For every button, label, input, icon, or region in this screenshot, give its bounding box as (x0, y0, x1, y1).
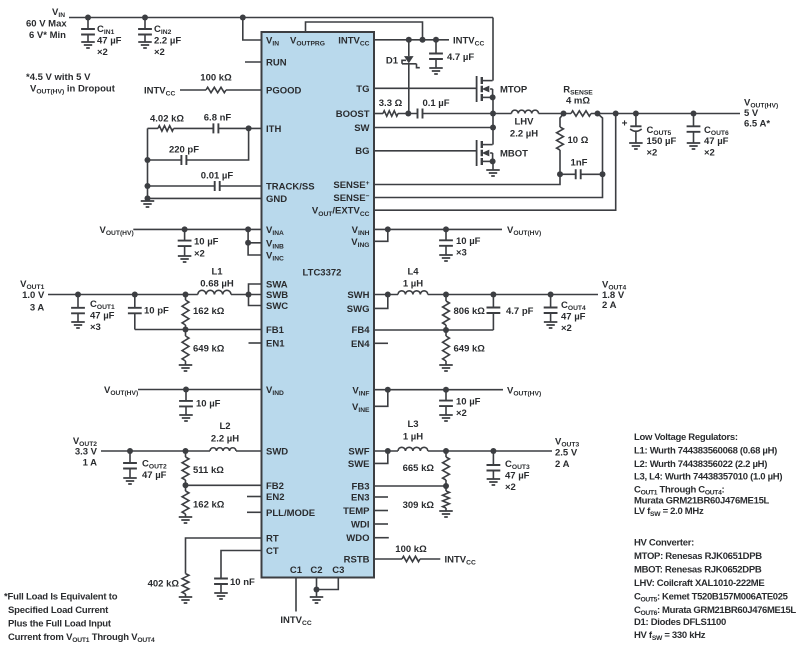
ground below 649k (179, 365, 193, 371)
svg-text:1 A: 1 A (83, 458, 98, 469)
capacitor 4.7pF FB4 (487, 295, 534, 331)
svg-text:665 kΩ: 665 kΩ (403, 463, 435, 474)
wire VINF line (374, 387, 503, 393)
wire MTOP source to SW node (492, 97, 494, 113)
svg-text:BOOST: BOOST (336, 109, 370, 120)
svg-text:MTOP: MTOP (500, 85, 528, 96)
ground below COUT2 (123, 478, 137, 484)
wire VIN rail to MTOP drain (492, 18, 494, 81)
wire VOUTPRG loop (306, 22, 423, 40)
svg-text:GND: GND (266, 194, 287, 205)
label D1 (386, 56, 399, 67)
svg-text:47 µF: 47 µF (505, 471, 530, 482)
svg-text:COUT6: Murata GRM21BR60J476ME1: COUT6: Murata GRM21BR60J476ME15L (634, 605, 796, 617)
svg-text:L2: Wurth 74438356022 (2.2 µH): L2: Wurth 74438356022 (2.2 µH) (634, 459, 767, 470)
svg-text:MTOP: Renesas RJK0651DPB: MTOP: Renesas RJK0651DPB (634, 551, 762, 562)
capacitor 10pF FB1 (128, 295, 169, 330)
label COUT5 (647, 125, 677, 159)
svg-text:47 µF: 47 µF (142, 470, 167, 481)
wire PGOOD right segment (226, 89, 262, 91)
wire BG to MBOT gate (374, 150, 477, 152)
svg-text:L2: L2 (219, 421, 230, 432)
svg-text:0.68 µH: 0.68 µH (200, 279, 234, 290)
svg-text:×2: ×2 (154, 47, 165, 58)
resistor 649k FB1 bottom (182, 330, 225, 366)
wire WDO stub (374, 537, 389, 539)
resistor 309k FB3 bottom (403, 486, 450, 511)
ground below 309k (439, 511, 453, 517)
svg-text:0.01 µF: 0.01 µF (201, 171, 234, 182)
inductor L3 1uH (398, 447, 428, 451)
wire SWF to L3 (374, 448, 398, 454)
diode D1 DFLS1100 (402, 40, 420, 114)
svg-text:SENSE−: SENSE− (333, 193, 369, 204)
wire EN1 stub (249, 342, 262, 344)
resistor RSENSE 4mohm (571, 111, 591, 116)
svg-text:SWB: SWB (266, 290, 288, 301)
resistor 402k RT (148, 574, 189, 597)
svg-text:806 kΩ: 806 kΩ (454, 306, 486, 317)
svg-text:162 kΩ: 162 kΩ (193, 306, 225, 317)
wire TRACK/SS to pin (220, 185, 262, 187)
svg-text:SWE: SWE (348, 459, 370, 470)
ground below 649k FB4 (439, 365, 453, 371)
inductor L1 0.68uH (198, 290, 231, 294)
svg-text:ITH: ITH (266, 124, 281, 135)
svg-text:×2: ×2 (505, 482, 516, 493)
wire L1 to SWB (231, 292, 262, 298)
resistor 665k FB3 top (403, 451, 450, 486)
svg-text:×2: ×2 (704, 148, 715, 159)
svg-text:L1: Wurth 744383560068 (0.68 µ: L1: Wurth 744383560068 (0.68 µH) (634, 446, 777, 457)
svg-text:Specified Load Current: Specified Load Current (8, 605, 109, 616)
svg-text:4.7 pF: 4.7 pF (506, 306, 534, 317)
svg-text:10 nF: 10 nF (230, 577, 255, 588)
node VOUT(HV) output labels (744, 98, 778, 130)
capacitor 0.1uF BOOST (418, 98, 450, 119)
label COUT1 (90, 299, 115, 333)
capacitor CIN1 (81, 15, 95, 43)
node VOUT2 labels (73, 436, 98, 469)
label CIN1 value (97, 24, 122, 58)
ground below MBOT (486, 170, 500, 176)
svg-text:×3: ×3 (90, 322, 101, 333)
label 4.7uF (447, 52, 474, 63)
resistor 100k RSTB (395, 544, 427, 562)
label COUT3 (505, 459, 530, 493)
wire L4 to VOUT4 (428, 292, 598, 298)
resistor 162k FB1 top (182, 295, 225, 330)
svg-text:3.3 Ω: 3.3 Ω (379, 98, 403, 109)
wire LHV to RSENSE (539, 111, 572, 117)
svg-text:SWA: SWA (266, 280, 288, 291)
node VOUT(HV) label at VIND (104, 385, 138, 397)
wire EN2 stub (247, 496, 262, 498)
svg-text:SWG: SWG (347, 304, 370, 315)
svg-text:3.3 V: 3.3 V (75, 447, 98, 458)
wire SW pin to node (374, 125, 496, 131)
node VOUT(HV) label at VINF (507, 385, 541, 397)
label L1 (200, 267, 234, 290)
capacitor COUT4 47uF (544, 295, 558, 323)
svg-text:220 pF: 220 pF (169, 145, 199, 156)
ground below CIN1 (81, 42, 95, 48)
wire PGOOD left segment (180, 89, 206, 91)
svg-text:4.02 kΩ: 4.02 kΩ (150, 113, 184, 124)
svg-text:C2: C2 (310, 565, 322, 576)
svg-text:2.2 µH: 2.2 µH (211, 434, 239, 445)
capacitor 4.7uF INTVCC (429, 40, 443, 68)
svg-text:LTC3372: LTC3372 (303, 268, 342, 279)
resistor 10ohm sense filter (557, 114, 589, 175)
wire SW vertical to MBOT drain (492, 114, 494, 145)
label MTOP (500, 85, 528, 96)
svg-text:FB1: FB1 (266, 325, 285, 336)
svg-text:0.1 µF: 0.1 µF (422, 98, 449, 109)
svg-text:SENSE+: SENSE+ (333, 180, 369, 191)
svg-text:L4: L4 (407, 267, 419, 278)
IC top pin label VOUTPRG (290, 36, 325, 48)
label RSENSE (563, 85, 593, 107)
svg-text:×3: ×3 (456, 248, 467, 259)
svg-text:TRACK/SS: TRACK/SS (266, 182, 315, 193)
svg-text:4.7 µF: 4.7 µF (447, 52, 474, 63)
capacitor 10uF VIND (179, 390, 193, 416)
wire GND line (148, 197, 262, 199)
ground below COUT6 (687, 143, 701, 149)
label COUT4 (561, 300, 586, 334)
IC left pin labels (266, 36, 315, 558)
label L3 (403, 419, 423, 443)
wire TEMP stub (374, 510, 388, 512)
svg-text:309 kΩ: 309 kΩ (403, 500, 435, 511)
svg-text:FB2: FB2 (266, 481, 284, 492)
svg-text:649 kΩ: 649 kΩ (454, 344, 486, 355)
svg-text:Plus the Full Load Input: Plus the Full Load Input (8, 619, 112, 630)
label L4 (403, 267, 423, 290)
wire TRACK/SS left (148, 185, 215, 187)
svg-text:WDO: WDO (346, 533, 369, 544)
svg-text:EN3: EN3 (351, 493, 369, 504)
wire EN3 stub (374, 496, 388, 498)
svg-text:L3: L3 (407, 419, 418, 430)
resistor 4.02k ITH (150, 113, 184, 131)
svg-text:10 pF: 10 pF (144, 306, 169, 317)
svg-text:6 V* Min: 6 V* Min (29, 30, 66, 41)
wire sense filter right leg (598, 114, 603, 175)
ground below VINH cap (439, 255, 453, 261)
wire VINH line (374, 226, 502, 232)
wire VOUT/EXTVCC line (374, 114, 616, 211)
wire VIN rail to IC VIN pin (240, 15, 262, 41)
ground below CIN2 (138, 42, 152, 48)
node VIN input labels (26, 7, 67, 41)
svg-text:LHV: Coilcraft XAL1010-222ME: LHV: Coilcraft XAL1010-222ME (634, 578, 764, 589)
wire SWG bracket (374, 295, 388, 309)
ground below 4.7uF (429, 68, 443, 74)
svg-text:C1: C1 (290, 565, 303, 576)
svg-text:C3: C3 (332, 565, 344, 576)
capacitor COUT2 47uF (123, 451, 137, 478)
svg-text:1 µH: 1 µH (403, 432, 423, 443)
resistor 100k PGOOD (200, 73, 232, 93)
svg-text:L3, L4: Wurth 74438357010 (1.0: L3, L4: Wurth 74438357010 (1.0 µH) (634, 472, 782, 483)
ground below COUT4 (544, 322, 558, 328)
wire VOUT1 line (48, 292, 198, 298)
node INTVCC label at RSTB (445, 555, 476, 567)
capacitor 6.8nF ITH (204, 113, 232, 134)
capacitor 10uF VINA (178, 229, 192, 256)
wire WDI stub (374, 523, 388, 525)
wire FB1 line (135, 327, 262, 333)
svg-text:1nF: 1nF (571, 158, 588, 169)
wire VINB VINC bracket (245, 229, 261, 255)
svg-text:TG: TG (356, 84, 369, 95)
wire ITH vertical bus (145, 128, 151, 201)
IC bottom pin labels C1 C2 C3 (290, 565, 344, 576)
ground below 10nF (214, 593, 228, 599)
wire INTVCC from pin (374, 37, 449, 43)
svg-text:CT: CT (266, 546, 279, 557)
capacitor 10nF CT (214, 577, 255, 593)
note HV converter list (634, 538, 796, 643)
label CIN2 value (154, 24, 181, 58)
node INTVCC label bottom (280, 615, 311, 627)
wire VIND line (138, 387, 262, 393)
svg-text:Murata GRM21BR60J476ME15L: Murata GRM21BR60J476ME15L (634, 496, 770, 507)
svg-text:60 V Max: 60 V Max (26, 19, 67, 30)
svg-text:BG: BG (355, 146, 369, 157)
ground below VIND cap (179, 415, 193, 421)
wire BOOST from pin (374, 113, 383, 115)
wire L3 to VOUT3 (428, 448, 552, 454)
node VOUT(HV) label at VINH (507, 225, 541, 237)
wire SWH to L4 (374, 292, 398, 298)
wire 220pF branch right (186, 128, 248, 160)
svg-text:5 V: 5 V (744, 108, 759, 119)
wire RSENSE to output (591, 111, 740, 117)
svg-text:RUN: RUN (266, 58, 287, 69)
svg-text:SWC: SWC (266, 301, 288, 312)
capacitor 1nF sense filter (557, 158, 606, 180)
label 10uF x3 VINH (456, 236, 481, 259)
wire RSTB left (374, 558, 402, 560)
ground below 162k FB2 (179, 517, 193, 523)
svg-text:100 kΩ: 100 kΩ (200, 73, 232, 84)
svg-text:*Full Load Is Equivalent to: *Full Load Is Equivalent to (4, 592, 118, 603)
wire EN4 stub (374, 342, 388, 344)
svg-text:100 kΩ: 100 kΩ (395, 544, 427, 555)
label MBOT (500, 149, 528, 160)
label L2 (211, 421, 239, 445)
node VOUT3 labels (555, 437, 579, 471)
inductor L2 2.2uH (210, 448, 236, 451)
svg-text:SWD: SWD (266, 447, 288, 458)
svg-text:*4.5 V with 5 V: *4.5 V with 5 V (26, 72, 91, 83)
svg-text:LHV: LHV (515, 117, 535, 128)
svg-text:D1: Diodes DFLS1100: D1: Diodes DFLS1100 (634, 617, 726, 628)
svg-text:10 Ω: 10 Ω (568, 135, 589, 146)
svg-text:3 A: 3 A (30, 302, 45, 313)
svg-text:150 µF: 150 µF (647, 136, 677, 147)
ground below COUT5 (629, 143, 643, 149)
wire VOUT2 line (101, 448, 210, 454)
transistor MTOP (477, 76, 496, 102)
svg-text:TEMP: TEMP (343, 506, 370, 517)
svg-text:Low Voltage Regulators:: Low Voltage Regulators: (634, 432, 738, 443)
wire PLL/MODE stub (247, 511, 262, 513)
svg-text:RT: RT (266, 534, 279, 545)
svg-text:×2: ×2 (456, 408, 467, 419)
svg-text:FB4: FB4 (352, 325, 371, 336)
svg-text:1 µH: 1 µH (403, 279, 423, 290)
svg-text:RSTB: RSTB (344, 555, 370, 566)
capacitor CIN2 (138, 15, 152, 43)
wire RUN stub (245, 61, 262, 63)
node INTVCC label at PGOOD (144, 85, 175, 97)
wire CT line (221, 551, 262, 579)
capacitor 220pF (169, 145, 199, 166)
svg-text:SW: SW (354, 123, 369, 134)
wire SENSE+ line (374, 174, 560, 184)
svg-text:162 kΩ: 162 kΩ (193, 500, 225, 511)
resistor 3.3ohm BOOST (379, 98, 403, 116)
wire ITH to pin (218, 125, 261, 131)
capacitor 0.01uF TRACK/SS (201, 171, 234, 191)
svg-text:×2: ×2 (561, 323, 572, 334)
ground below VINA cap (178, 256, 192, 262)
ground below VINF cap (439, 415, 453, 421)
inductor L4 1uH (398, 291, 428, 295)
svg-text:HV Converter:: HV Converter: (634, 538, 694, 549)
label COUT6 (704, 125, 729, 159)
svg-text:MBOT: Renesas RJK0652DPB: MBOT: Renesas RJK0652DPB (634, 565, 762, 576)
resistor 649k FB4 bottom (443, 330, 486, 365)
wire VINE bracket (374, 390, 388, 407)
svg-text:649 kΩ: 649 kΩ (193, 344, 225, 355)
svg-text:MBOT: MBOT (500, 149, 528, 160)
svg-text:COUT5: Kemet T520B157M006ATE02: COUT5: Kemet T520B157M006ATE025 (634, 592, 789, 604)
capacitor COUT1 47uF (71, 295, 85, 323)
svg-text:EN1: EN1 (266, 339, 285, 350)
capacitor 10uF VINH (439, 229, 453, 255)
svg-text:511 kΩ: 511 kΩ (193, 465, 224, 476)
resistor 162k FB2 bottom (182, 485, 225, 517)
label 10uF x2 VINA (194, 237, 219, 260)
capacitor 10uF VINF (439, 390, 453, 415)
wire TG to MTOP gate (374, 87, 477, 89)
node INTVCC label top (453, 35, 484, 47)
label 10uF x2 VINF (456, 397, 481, 420)
wire RT line (186, 538, 262, 574)
IC right pin labels (312, 35, 370, 565)
capacitor COUT3 47uF (487, 451, 501, 479)
note dropout footnote (26, 72, 116, 96)
svg-text:402 kΩ: 402 kΩ (148, 579, 180, 590)
svg-text:×2: ×2 (97, 47, 108, 58)
svg-text:10 µF: 10 µF (194, 237, 219, 248)
ground below COUT3 (487, 479, 501, 485)
wire FB3 line (374, 483, 449, 489)
resistor 511k FB2 top (182, 451, 224, 485)
svg-text:1.0 V: 1.0 V (22, 290, 45, 301)
wire FB4 line (374, 327, 493, 333)
svg-text:EN4: EN4 (351, 339, 370, 350)
svg-text:6.5 A*: 6.5 A* (744, 119, 770, 130)
wire VIN rail (69, 17, 493, 19)
op-amp U1 LTC3372 IC body (262, 32, 375, 578)
svg-text:L1: L1 (211, 267, 223, 278)
wire SWA SWC bracket (249, 284, 262, 306)
svg-text:47 µF: 47 µF (97, 36, 122, 47)
node VOUT4 labels (602, 280, 626, 312)
ground at GND pin bus (141, 198, 155, 207)
svg-text:EN2: EN2 (266, 492, 284, 503)
transistor MBOT (477, 140, 496, 166)
node VOUT(HV) label at VINA (100, 225, 134, 237)
wire C1 to INTVCC (295, 578, 297, 612)
wire SENSE- line (374, 174, 603, 197)
svg-text:2.2 µH: 2.2 µH (510, 129, 538, 140)
svg-text:×2: ×2 (647, 148, 658, 159)
wire VINA line (133, 226, 261, 232)
svg-text:WDI: WDI (351, 520, 369, 531)
svg-text:PGOOD: PGOOD (266, 86, 302, 97)
wire C2 down (314, 578, 320, 598)
svg-text:HV fSW = 330 kHz: HV fSW = 330 kHz (634, 630, 706, 642)
label 10uF VIND (196, 399, 221, 410)
wire L2 to SWD (236, 450, 262, 452)
wire ITH mid (174, 127, 214, 129)
svg-text:LV fSW = 2.0 MHz: LV fSW = 2.0 MHz (634, 506, 704, 518)
wire ITH line left (148, 127, 159, 129)
svg-text:10 µF: 10 µF (196, 399, 221, 410)
node VOUT1 labels (20, 279, 45, 313)
wire C3 down and left (317, 578, 339, 590)
resistor 806k FB4 top (443, 295, 486, 331)
svg-text:SWF: SWF (348, 447, 369, 458)
svg-text:2 A: 2 A (555, 459, 570, 470)
wire BOOST mid (398, 111, 418, 117)
ground below 402k (179, 597, 193, 603)
svg-text:D1: D1 (386, 56, 399, 67)
svg-text:PLL/MODE: PLL/MODE (266, 508, 315, 519)
wire RSTB right (420, 558, 440, 560)
wire BOOST to SW node (423, 111, 497, 117)
svg-text:×2: ×2 (194, 249, 205, 260)
svg-text:47 µF: 47 µF (561, 312, 586, 323)
svg-text:10 µF: 10 µF (456, 397, 481, 408)
capacitor COUT5 150uF polarized (622, 114, 642, 144)
svg-text:+: + (622, 119, 628, 130)
label COUT2 (142, 459, 167, 482)
svg-text:4 mΩ: 4 mΩ (566, 96, 590, 107)
note full load footnote (4, 592, 155, 645)
wire MBOT source to ground (492, 161, 494, 170)
wire VING bracket (374, 229, 388, 241)
ground below C2 (310, 597, 324, 603)
svg-text:2.5 V: 2.5 V (555, 448, 578, 459)
capacitor COUT6 47uF (687, 114, 701, 144)
inductor LHV 2.2uH (493, 110, 539, 139)
note low voltage regulators list (634, 432, 782, 518)
svg-text:2.2 µF: 2.2 µF (154, 36, 181, 47)
wire SWE bracket (374, 451, 388, 463)
svg-text:2 A: 2 A (602, 300, 617, 311)
wire 220pF branch left (148, 159, 182, 161)
svg-text:47 µF: 47 µF (704, 136, 729, 147)
svg-text:10 µF: 10 µF (456, 236, 481, 247)
